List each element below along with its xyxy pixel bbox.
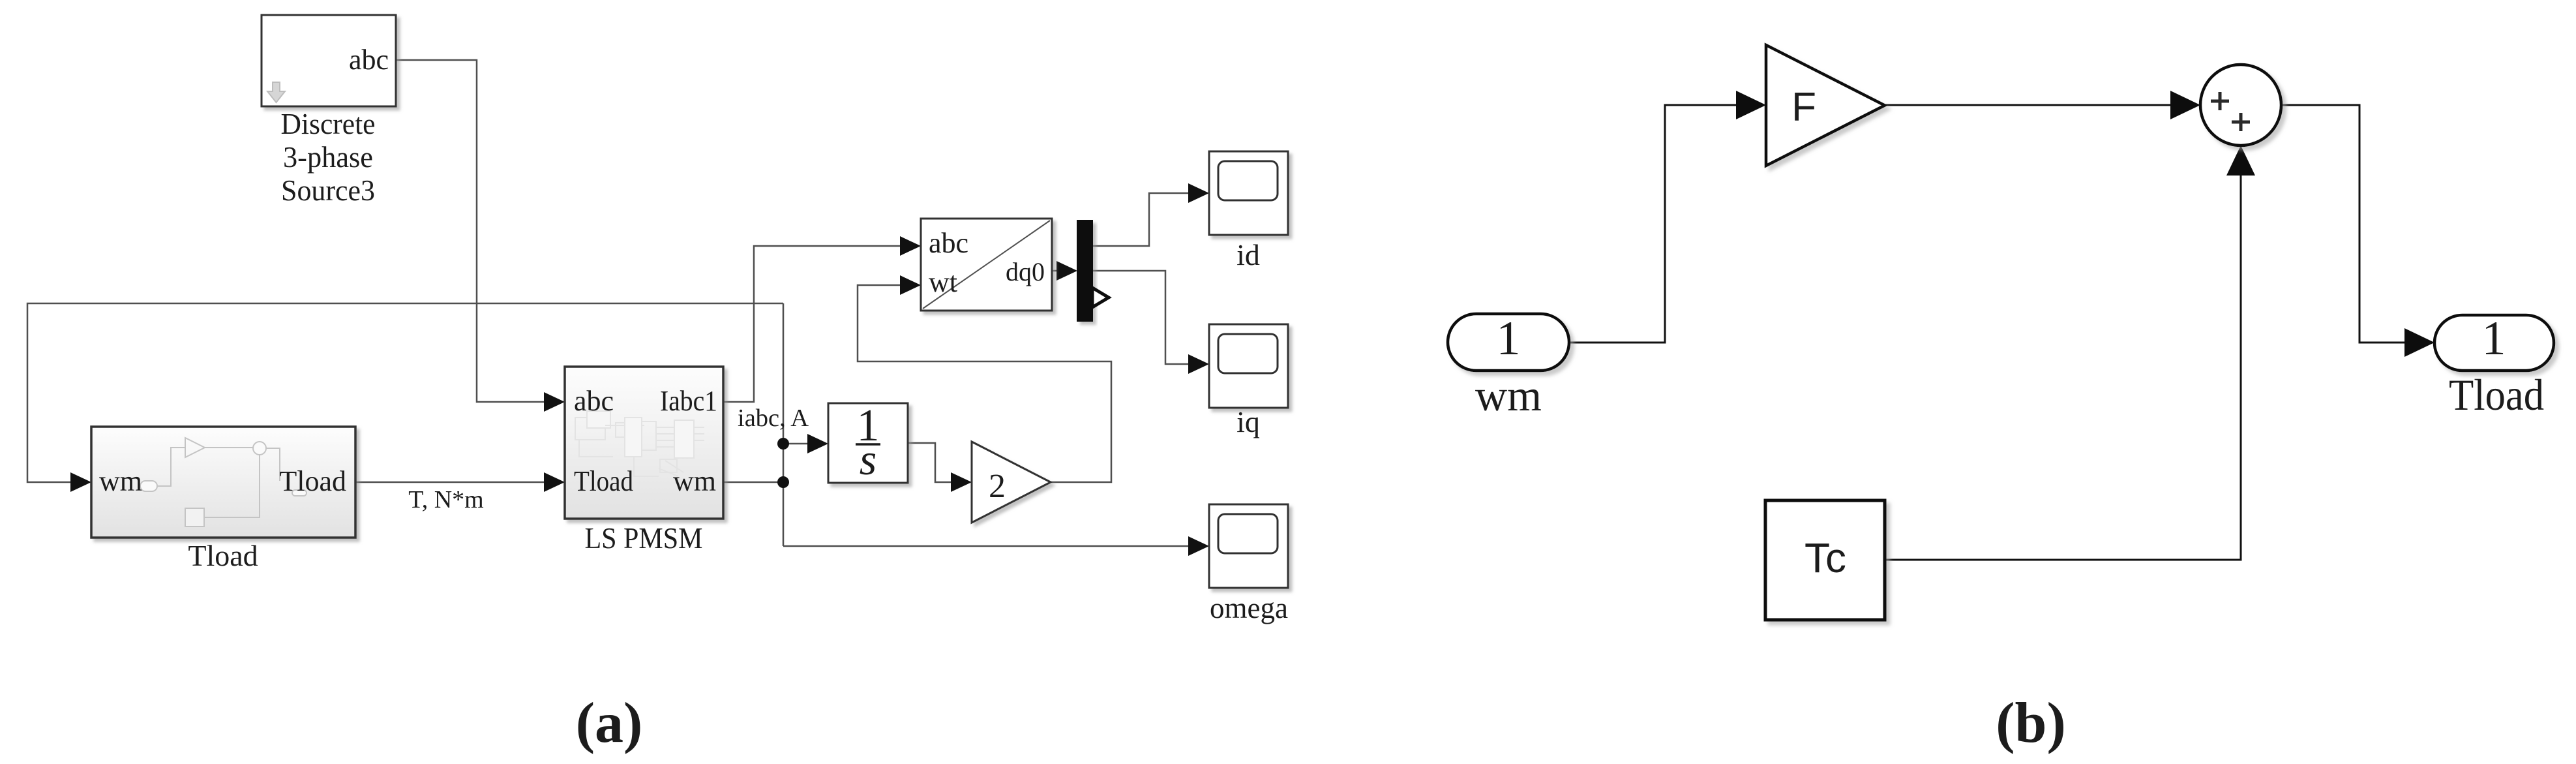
svg-text:wt: wt <box>929 266 957 298</box>
svg-text:Discrete: Discrete <box>281 107 376 140</box>
svg-text:omega: omega <box>1210 591 1288 624</box>
svg-text:id: id <box>1236 238 1260 271</box>
svg-text:Iabc1: Iabc1 <box>660 385 717 417</box>
svg-text:abc: abc <box>574 385 614 417</box>
svg-text:iq: iq <box>1236 405 1260 438</box>
svg-text:Tload: Tload <box>188 539 258 572</box>
svg-text:abc: abc <box>929 227 968 259</box>
svg-text:(a): (a) <box>576 692 643 755</box>
svg-text:abc: abc <box>349 44 389 76</box>
svg-text:F: F <box>1791 85 1816 130</box>
svg-text:s: s <box>860 435 876 484</box>
svg-text:wm: wm <box>99 465 142 497</box>
svg-text:2: 2 <box>989 468 1006 505</box>
svg-text:Tc: Tc <box>1805 534 1846 581</box>
svg-text:wm: wm <box>1475 371 1542 420</box>
svg-text:1: 1 <box>2482 312 2506 365</box>
svg-text:(b): (b) <box>1996 692 2066 755</box>
svg-text:T, N*m: T, N*m <box>408 486 483 513</box>
svg-text:LS PMSM: LS PMSM <box>585 521 703 555</box>
svg-text:iabc, A: iabc, A <box>738 405 809 432</box>
svg-text:1: 1 <box>1497 312 1521 365</box>
svg-text:Source3: Source3 <box>281 174 375 207</box>
svg-text:Tload: Tload <box>574 465 633 497</box>
svg-text:Tload: Tload <box>2449 370 2544 420</box>
svg-text:Tload: Tload <box>279 465 346 497</box>
svg-text:wm: wm <box>673 465 716 497</box>
svg-text:dq0: dq0 <box>1006 257 1045 286</box>
svg-text:3-phase: 3-phase <box>283 140 373 174</box>
